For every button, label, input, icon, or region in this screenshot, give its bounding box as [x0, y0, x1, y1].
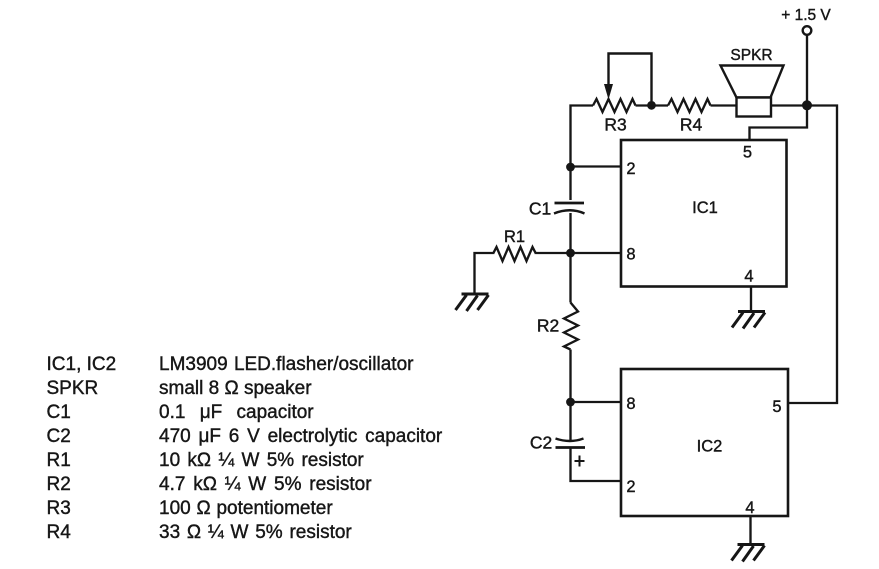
wire node D down to R2: [569, 253, 571, 303]
wire main rail left corner down to node C: [571, 106, 594, 165]
wire speaker to node A and right rail down to IC2 pin 5: [771, 106, 837, 404]
node E junction dot: [566, 398, 575, 407]
wire node C down to C1: [569, 167, 571, 200]
speaker SPKR magnet: [737, 98, 772, 117]
svg-text:4: 4: [745, 499, 754, 517]
svg-text:C1: C1: [529, 199, 551, 219]
svg-text:100 Ω potentiometer: 100 Ω potentiometer: [159, 498, 333, 519]
node C junction dot: [566, 163, 575, 172]
wire C1 to node D: [569, 213, 571, 250]
wire node D to IC1 pin 8: [571, 252, 622, 254]
capacitor C1 top plate: [555, 202, 585, 205]
resistor R4: [668, 99, 711, 112]
ground under IC2: [732, 545, 765, 562]
wire node E down to C2: [569, 402, 571, 440]
svg-text:R1: R1: [47, 450, 71, 471]
svg-text:IC1, IC2: IC1, IC2: [47, 354, 117, 375]
resistor R2: [564, 303, 578, 350]
wire R4 to speaker: [711, 104, 738, 106]
capacitor C2 top plate: [556, 439, 584, 442]
svg-text:SPKR: SPKR: [730, 47, 772, 64]
wire R3 to R4 through node B: [636, 104, 669, 106]
svg-text:IC2: IC2: [697, 438, 723, 456]
svg-text:4.7 kΩ ¼ W 5% resistor: 4.7 kΩ ¼ W 5% resistor: [159, 474, 372, 495]
svg-text:R1: R1: [504, 228, 525, 246]
svg-text:C2: C2: [530, 433, 552, 453]
potentiometer R3 body: [593, 99, 636, 112]
svg-text:0.1 μF capacitor: 0.1 μF capacitor: [159, 402, 314, 423]
R3 wiper arrowhead: [604, 84, 613, 100]
wire node A down over to IC1 pin 5: [750, 107, 808, 140]
svg-text:IC1: IC1: [692, 199, 718, 217]
IC2 box: [621, 369, 788, 516]
svg-text:R3: R3: [47, 498, 71, 519]
svg-text:C1: C1: [47, 402, 71, 423]
wire IC2 pin 4 to ground: [749, 516, 751, 544]
svg-text:R3: R3: [604, 115, 626, 135]
wire IC1 pin 4 to ground: [750, 287, 752, 312]
capacitor C2 bottom plate: [556, 446, 586, 449]
wire C2 down to IC2 pin 2: [571, 448, 622, 482]
svg-text:8: 8: [626, 246, 635, 264]
svg-text:5: 5: [743, 144, 752, 162]
wire node C to IC1 pin 2: [571, 165, 622, 167]
speaker SPKR horn: [721, 66, 784, 98]
ground under R1: [456, 294, 489, 311]
svg-text:2: 2: [626, 478, 635, 496]
node D junction dot: [566, 249, 575, 258]
parts list: [47, 354, 443, 543]
svg-text:+ 1.5 V: + 1.5 V: [781, 7, 831, 24]
wire R2 down to node E: [569, 350, 571, 399]
node B junction dot: [647, 101, 656, 110]
svg-text:5: 5: [772, 398, 781, 416]
svg-text:R4: R4: [47, 522, 72, 543]
capacitor C1 bottom plate: [554, 210, 585, 213]
svg-text:2: 2: [626, 160, 635, 178]
wire node E to IC2 pin 8: [571, 401, 622, 403]
C2 polarity plus sign: [575, 456, 585, 467]
wire R1 to node D: [536, 252, 571, 254]
ground under IC1: [732, 312, 765, 329]
node A junction dot: [802, 100, 812, 110]
resistor R1: [493, 247, 536, 261]
wire battery terminal down to node A: [806, 36, 808, 104]
svg-text:LM3909 LED.flasher/oscillator: LM3909 LED.flasher/oscillator: [159, 354, 414, 375]
IC1 box: [621, 140, 787, 287]
svg-text:33 Ω ¼ W 5% resistor: 33 Ω ¼ W 5% resistor: [159, 522, 352, 543]
svg-text:R4: R4: [680, 115, 703, 135]
svg-text:8: 8: [626, 395, 635, 413]
R3 wiper loop wire: [609, 54, 652, 102]
svg-text:small 8 Ω speaker: small 8 Ω speaker: [159, 378, 312, 399]
svg-text:SPKR: SPKR: [47, 378, 99, 399]
svg-text:4: 4: [744, 268, 753, 286]
terminal +1.5 V: [803, 26, 812, 35]
svg-text:10 kΩ ¼ W 5% resistor: 10 kΩ ¼ W 5% resistor: [159, 450, 364, 471]
svg-text:R2: R2: [47, 474, 71, 495]
svg-text:R2: R2: [537, 316, 559, 336]
svg-text:470 μF 6 V electrolytic capaci: 470 μF 6 V electrolytic capacitor: [159, 426, 443, 447]
svg-text:C2: C2: [47, 426, 71, 447]
wire ground riser to R1: [475, 253, 494, 294]
